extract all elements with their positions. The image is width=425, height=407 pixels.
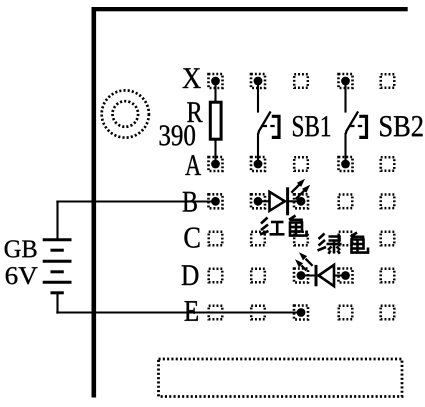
wire col1 X pad to resistor bbox=[214, 81, 216, 102]
pad D3 bbox=[294, 269, 308, 283]
pad A1 bbox=[209, 157, 223, 171]
pad D4 bbox=[339, 269, 353, 283]
node label E bbox=[185, 301, 198, 321]
pad C3 bbox=[294, 232, 308, 246]
battery GB plate short 2 bbox=[51, 270, 64, 273]
pad C2 bbox=[251, 232, 265, 246]
green LED triangle VD2 bbox=[319, 265, 334, 286]
label hongse (red) char hong bbox=[260, 218, 285, 235]
switch SB1 lower wire bbox=[257, 133, 259, 164]
battery GB plate long 1 bbox=[43, 238, 72, 241]
green LED cathode bar bbox=[315, 265, 318, 286]
pad X5 bbox=[381, 74, 395, 88]
switch SB1 upper wire bbox=[257, 81, 259, 113]
red LED light arrow 1 bbox=[291, 179, 305, 193]
pad B5 bbox=[381, 195, 395, 209]
pad D5 bbox=[381, 269, 395, 283]
pad E5 bbox=[381, 306, 395, 320]
pad B3 bbox=[294, 194, 308, 208]
battery label 6V bbox=[6, 267, 38, 284]
label lvse (green) char lv bbox=[318, 234, 342, 254]
switch SB1 button head bracket bbox=[272, 116, 279, 137]
pad A3 bbox=[294, 157, 308, 171]
pad E3 bbox=[294, 306, 308, 320]
pad A4 bbox=[339, 157, 353, 171]
switch SB1 blade bbox=[258, 111, 270, 134]
pad B2 bbox=[251, 194, 265, 208]
switch SB1 actuator dashed link bbox=[263, 125, 277, 127]
red LED wire col2 to anode bbox=[258, 200, 270, 202]
pad X4 bbox=[339, 74, 353, 88]
wire row B: battery top to col1 pad bbox=[56, 200, 215, 202]
red LED cathode bar bbox=[286, 187, 289, 215]
green LED through wire col3 to col4 bbox=[301, 274, 346, 276]
board top edge bbox=[92, 7, 408, 11]
switch SB2 lower wire bbox=[344, 133, 346, 164]
switch SB2 upper wire bbox=[344, 81, 346, 113]
battery label GB bbox=[5, 240, 37, 257]
wire battery negative vertical bbox=[56, 293, 58, 314]
battery GB plate short 1 bbox=[51, 249, 64, 252]
switch SB2 actuator dashed link bbox=[350, 125, 364, 127]
battery GB plate long 3 bbox=[43, 281, 72, 284]
red LED triangle VD1 bbox=[270, 192, 285, 211]
board left edge bbox=[92, 7, 97, 398]
mounting hole inner circle bbox=[113, 101, 139, 127]
pad A2 bbox=[251, 157, 265, 171]
red LED light arrow 2 bbox=[296, 185, 311, 200]
battery GB plate long 2 bbox=[43, 260, 72, 263]
mounting hole outer circle bbox=[102, 90, 149, 137]
node label R bbox=[187, 102, 202, 122]
solder bus strip dashed rectangle bbox=[159, 359, 403, 397]
wire row E: battery bottom to col3 pad bbox=[56, 311, 301, 313]
pad C5 bbox=[381, 232, 395, 246]
node label D bbox=[182, 265, 199, 285]
green LED light arrow 1 bbox=[299, 252, 313, 266]
switch SB2 blade bbox=[346, 111, 358, 134]
pad X1 bbox=[209, 74, 223, 88]
node label A bbox=[185, 155, 201, 175]
pad B1 bbox=[209, 194, 223, 208]
pad X2 bbox=[251, 74, 265, 88]
pad B4 bbox=[339, 195, 353, 209]
value label 390 bbox=[160, 125, 195, 145]
pad C4 bbox=[339, 232, 353, 246]
pad D1 bbox=[209, 269, 223, 283]
wire resistor to col1 A pad bbox=[214, 139, 216, 164]
wire battery positive vertical bbox=[56, 202, 58, 240]
label lvse (green) char se bbox=[351, 233, 369, 253]
pad E1 bbox=[209, 306, 223, 320]
red LED wire cathode to col3 pad bbox=[288, 200, 301, 202]
node label X bbox=[183, 68, 201, 88]
switch SB2 button head bracket bbox=[359, 116, 366, 137]
node label B bbox=[183, 192, 197, 212]
pad A5 bbox=[381, 157, 395, 171]
pad D2 bbox=[251, 269, 265, 283]
label SB1 bbox=[293, 116, 330, 136]
pad E2 bbox=[251, 306, 265, 320]
pad E4 bbox=[339, 306, 353, 320]
pad C1 bbox=[209, 232, 223, 246]
battery GB plate short 3 bbox=[51, 291, 64, 294]
label hongse (red) char se bbox=[289, 216, 307, 236]
node label C bbox=[184, 228, 199, 248]
label SB2 bbox=[380, 116, 422, 136]
pad X3 bbox=[294, 74, 308, 88]
resistor R 390 body bbox=[210, 102, 221, 139]
green LED light arrow 2 bbox=[295, 259, 306, 270]
